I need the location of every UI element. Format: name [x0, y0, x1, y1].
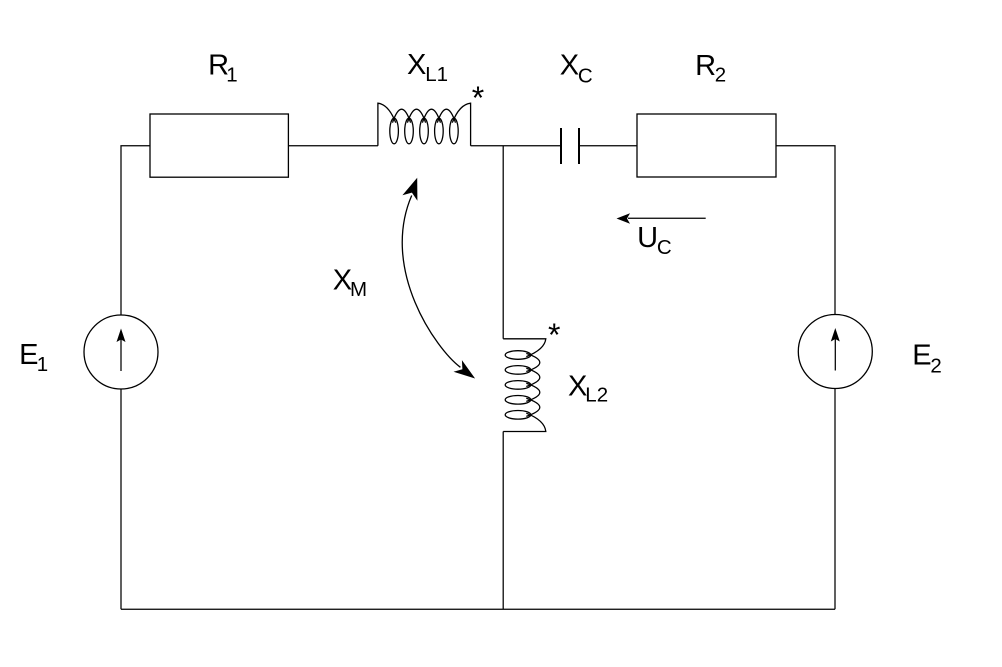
source E2 arrow	[834, 338, 836, 371]
svg-text:X: X	[560, 50, 579, 82]
svg-text:L1: L1	[425, 63, 448, 86]
svg-text:1: 1	[226, 64, 237, 87]
svg-text:U: U	[637, 222, 658, 254]
XM arrowhead bottom	[454, 360, 476, 378]
resistor R1	[150, 114, 288, 177]
svg-text:2: 2	[930, 354, 941, 377]
wire: bottom rail	[121, 608, 835, 610]
source E2 circle	[798, 315, 872, 389]
voltage arrow UC line	[628, 217, 706, 219]
wire: capacitor right plate to R2	[579, 145, 637, 147]
svg-text:*: *	[548, 317, 560, 353]
inductor XL2	[503, 339, 546, 432]
wire: E1 bottom down left rail	[120, 389, 122, 609]
svg-text:*: *	[472, 80, 484, 116]
svg-text:1: 1	[37, 353, 48, 376]
UC arrowhead	[617, 213, 631, 223]
mutual coupling XM arc	[402, 196, 460, 368]
capacitor XC right plate	[578, 128, 580, 164]
svg-text:M: M	[350, 278, 367, 301]
wire: E1 top up left rail and across to R1	[121, 146, 150, 315]
wire: R1 to XL1	[288, 145, 378, 147]
svg-text:X: X	[407, 49, 426, 81]
source E1 circle	[84, 315, 158, 389]
svg-text:E: E	[912, 339, 931, 371]
svg-text:E: E	[19, 339, 38, 371]
svg-text:C: C	[657, 236, 672, 259]
wire: R2 across and down right rail to E2	[776, 146, 835, 315]
svg-text:C: C	[578, 64, 593, 87]
inductor XL1	[378, 103, 471, 146]
svg-text:2: 2	[715, 64, 726, 87]
resistor R2	[637, 114, 776, 177]
wire: XL2 bottom down middle branch	[502, 432, 504, 610]
svg-text:R: R	[695, 50, 716, 82]
source E1 arrow	[120, 338, 122, 371]
wire: E2 bottom down right rail	[834, 389, 836, 610]
wire: XL1 to capacitor left plate	[471, 145, 561, 147]
capacitor XC left plate	[560, 128, 562, 164]
svg-text:L2: L2	[585, 384, 608, 407]
wire: middle branch from top node down to XL2	[502, 146, 504, 339]
XM arrowhead top	[402, 178, 417, 201]
